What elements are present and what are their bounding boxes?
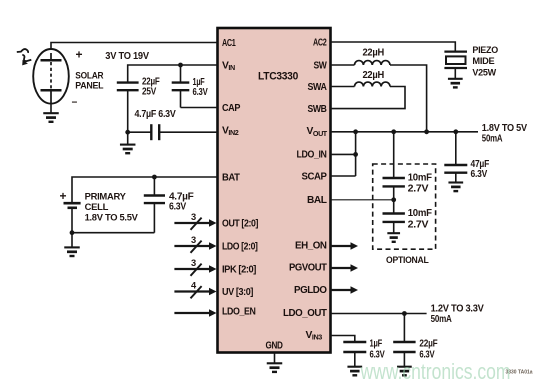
light ray squiggle 2 [22, 55, 31, 66]
wire solar panel to AC1 pin [51, 43, 218, 50]
capacitor 4.7uF 6.3V to VIN2 [128, 124, 218, 140]
primary cell battery symbol [64, 203, 81, 233]
wire VIN rail [128, 65, 218, 82]
ground below GND pin [267, 363, 283, 372]
pin label PGVOUT [289, 263, 328, 274]
pin label LDO[2:0] [222, 241, 258, 252]
wire VIN3 pin to 1uF [331, 336, 355, 342]
svg-text:AC2: AC2 [313, 37, 327, 48]
bus wire UV[3:0] 4 lines [174, 280, 216, 298]
pin label UV[3:0] [222, 287, 253, 298]
label 3V TO 19V [105, 50, 149, 62]
svg-text:CAP: CAP [222, 103, 241, 114]
pin label GND [266, 341, 283, 352]
pin label OUT[2:0] [222, 218, 258, 229]
svg-text:22µF: 22µF [419, 337, 438, 349]
OPTIONAL label [386, 255, 429, 266]
junction VIN / 1uF [178, 63, 183, 68]
capacitor 4.7uF 6.3V at BAT [144, 177, 165, 233]
junction VOUT / 47uF [453, 129, 458, 134]
wire EH_ON output arrow [331, 242, 359, 250]
pin label LDO_IN [297, 150, 327, 161]
svg-text:OPTIONAL: OPTIONAL [386, 255, 429, 266]
junction VOUT / L1 [424, 129, 429, 134]
capacitor 10mF 2.7V lower [383, 200, 405, 233]
figure code 3330 TA01a [506, 370, 534, 376]
svg-text:+: + [60, 189, 67, 203]
svg-text:1.8V TO 5.5V: 1.8V TO 5.5V [85, 213, 139, 224]
capacitor 10mF 2.7V upper [383, 132, 405, 200]
capacitor 1uF 6.3V at VIN3 [343, 342, 366, 367]
pin label VIN2 [222, 126, 239, 138]
label 10mF 2.7V lower [408, 207, 433, 230]
svg-text:3V TO 19V: 3V TO 19V [105, 50, 149, 62]
svg-text:LDO [2:0]: LDO [2:0] [222, 241, 258, 252]
wire 1uF to CAP pin [181, 107, 218, 109]
pin label VIN3 [306, 330, 323, 342]
pin label SCAP [302, 171, 328, 182]
ground below 22uF LDO_OUT [397, 367, 412, 376]
pin label PGLDO [294, 285, 327, 296]
ground below 22uF [120, 145, 136, 154]
pin label AC2 [313, 37, 327, 48]
svg-text:UV [3:0]: UV [3:0] [222, 287, 253, 298]
svg-text:GND: GND [266, 341, 283, 352]
label 22uF 6.3V at LDO_OUT [419, 337, 438, 360]
svg-text:10mF: 10mF [408, 207, 433, 219]
svg-text:SWB: SWB [308, 104, 327, 115]
label 4.7uF 6.3V at BAT [169, 190, 194, 212]
wire PGLDO output arrow [331, 286, 359, 294]
svg-text:BAT: BAT [222, 172, 241, 183]
svg-text:VIN: VIN [222, 61, 235, 73]
capacitor 1uF 6.3V at CAP [172, 65, 190, 108]
label 47uF 6.3V [471, 158, 490, 180]
svg-text:EH_ON: EH_ON [295, 240, 327, 251]
battery plus label [60, 189, 67, 203]
pin label IPK[2:0] [222, 264, 256, 275]
svg-text:www.cntronics.com: www.cntronics.com [360, 359, 511, 384]
junction LDO_IN [353, 152, 358, 157]
wire VOUT rail [331, 131, 479, 133]
light ray squiggle 1 [17, 49, 28, 53]
svg-text:22µH: 22µH [363, 47, 385, 59]
pin label AC1 [222, 38, 236, 49]
svg-text:VIN3: VIN3 [306, 330, 323, 342]
watermark www.cntronics.com [360, 359, 511, 384]
svg-text:VIN2: VIN2 [222, 126, 239, 138]
wire BAL to supercap midpoint [331, 199, 394, 201]
ground below piezo [448, 79, 463, 88]
svg-text:6.3V: 6.3V [169, 200, 186, 212]
svg-text:LTC3330: LTC3330 [258, 71, 298, 83]
junction VOUT / supercap branch [391, 129, 396, 134]
svg-text:PANEL: PANEL [75, 81, 103, 92]
wire battery to ground [71, 233, 73, 248]
wire AC2 to piezo [331, 42, 456, 51]
wire SCAP pin [331, 175, 356, 177]
pin label LDO_OUT [283, 308, 328, 319]
wire ground node stem [127, 132, 129, 144]
label VOUT 1.8V TO 5V 50mA [482, 122, 527, 145]
solar panel plus terminal label [76, 48, 83, 62]
svg-text:22µH: 22µH [363, 69, 385, 81]
capacitor 22uF 25V [117, 83, 139, 133]
svg-text:+: + [76, 48, 83, 62]
svg-text:6.3V: 6.3V [471, 168, 488, 180]
label 4.7uF 6.3V horizontal cap [135, 108, 176, 120]
label 1uF 6.3V at VIN3 [370, 337, 385, 360]
svg-text:4.7µF 6.3V: 4.7µF 6.3V [135, 108, 176, 120]
svg-text:PRIMARY: PRIMARY [85, 191, 127, 202]
bus wire OUT[2:0] 3 lines [174, 212, 216, 230]
ground below solar panel [43, 113, 59, 122]
svg-text:3: 3 [191, 235, 196, 245]
junction BAT / 4.7uF [152, 175, 157, 180]
svg-text:10mF: 10mF [408, 171, 433, 183]
svg-text:SW: SW [314, 60, 328, 71]
junction BAL midpoint [391, 197, 396, 202]
ground below 1uF VIN3 [347, 367, 362, 376]
junction ground node VIN2 branch [125, 130, 130, 135]
wire L1 to VOUT rail [390, 65, 427, 132]
svg-text:LDO_EN: LDO_EN [222, 307, 256, 318]
svg-text:50mA: 50mA [482, 133, 503, 145]
svg-text:2.7V: 2.7V [408, 183, 429, 195]
wire PGVOUT output arrow [331, 264, 359, 272]
capacitor 22uF 6.3V at LDO_OUT [393, 314, 415, 367]
piezo transducer MIDE V25W symbol [444, 52, 467, 79]
label LDO_OUT 1.2V TO 3.3V 50mA [431, 303, 484, 326]
label 10mF 2.7V upper [408, 171, 433, 194]
svg-text:SCAP: SCAP [302, 171, 328, 182]
ground below 47uF [448, 183, 463, 192]
wire LDO_OUT rail [331, 313, 427, 315]
pin label EH_ON [295, 240, 327, 251]
svg-text:2.7V: 2.7V [408, 218, 429, 230]
label L1 22uH [363, 47, 385, 59]
solar panel symbol ellipse [33, 49, 69, 104]
pin label SWA [308, 82, 328, 93]
pin label SW [314, 60, 328, 71]
wire L2 to SWB pin [331, 87, 406, 109]
dashed box OPTIONAL [373, 164, 436, 249]
pin label VOUT [307, 126, 328, 138]
svg-text:OUT [2:0]: OUT [2:0] [222, 218, 258, 229]
inductor L2 22uH [355, 82, 391, 86]
svg-text:CELL: CELL [85, 202, 109, 213]
svg-text:LDO_OUT: LDO_OUT [283, 308, 328, 319]
svg-text:PIEZO: PIEZO [472, 45, 498, 56]
solar panel minus terminal label [72, 98, 78, 109]
svg-text:3: 3 [191, 212, 196, 222]
bus wire IPK[2:0] 3 lines [174, 258, 216, 276]
svg-text:PGVOUT: PGVOUT [289, 263, 328, 274]
pin label BAL [307, 195, 327, 206]
wire solar panel to ground [50, 103, 52, 113]
svg-text:4: 4 [191, 280, 197, 290]
SOLAR PANEL label [75, 71, 103, 92]
IC U1 part number label LTC3330 [258, 71, 298, 83]
PIEZO MIDE V25W label [472, 45, 498, 79]
junction VOUT / LDO_IN branch [353, 129, 358, 134]
svg-text:3: 3 [191, 258, 196, 268]
junction LDO_OUT / 22uF [402, 311, 407, 316]
inductor L1 22uH [355, 61, 391, 65]
capacitor 47uF 6.3V at VOUT [444, 132, 467, 183]
pin label BAT [222, 172, 241, 183]
wire LDO_IN to VOUT [331, 132, 356, 176]
svg-text:25V: 25V [142, 85, 156, 97]
solar panel internal cell plates [41, 53, 62, 103]
ground inside optional box [387, 233, 400, 242]
wire SW pin to inductor L1 [331, 64, 355, 66]
svg-text:AC1: AC1 [222, 38, 236, 49]
svg-text:BAL: BAL [307, 195, 327, 206]
svg-text:SWA: SWA [308, 82, 328, 93]
svg-text:PGLDO: PGLDO [294, 285, 327, 296]
svg-text:LDO_IN: LDO_IN [297, 150, 327, 161]
svg-text:1µF: 1µF [370, 337, 383, 349]
wire BAT rail [72, 177, 218, 203]
label 1uF 6.3V [193, 76, 208, 98]
pin label VIN [222, 61, 235, 73]
pin label CAP [222, 103, 241, 114]
svg-text:V25W: V25W [472, 68, 497, 79]
svg-text:IPK [2:0]: IPK [2:0] [222, 264, 256, 275]
junction battery negative [70, 230, 75, 235]
wire LDO_EN input [174, 309, 216, 317]
svg-text:50mA: 50mA [431, 313, 453, 325]
label L2 22uH [363, 69, 385, 81]
svg-text:−: − [72, 98, 78, 109]
svg-text:MIDE: MIDE [472, 56, 495, 67]
label 22uF 25V [142, 75, 160, 97]
op-amp-style IC U1 LTC3330 body [218, 28, 331, 353]
wire SWA pin to inductor L2 [331, 86, 355, 88]
wire GND pin to ground [274, 353, 276, 364]
wire battery bottom return [72, 232, 154, 234]
pin label SWB [308, 104, 327, 115]
ground below battery [64, 247, 80, 256]
PRIMARY CELL label [85, 191, 139, 223]
pin label LDO_EN [222, 307, 256, 318]
bus wire LDO[2:0] 3 lines [174, 235, 216, 253]
svg-text:6.3V: 6.3V [193, 86, 208, 98]
svg-text:VOUT: VOUT [307, 126, 328, 138]
